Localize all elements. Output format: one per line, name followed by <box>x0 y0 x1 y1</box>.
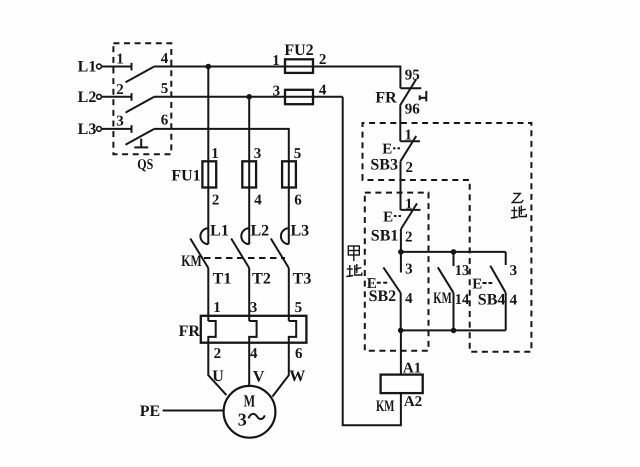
terminal L3 <box>97 126 102 131</box>
svg-text:T2: T2 <box>252 271 271 288</box>
svg-text:6: 6 <box>161 112 169 128</box>
svg-text:95: 95 <box>405 68 420 84</box>
wire KM to FR pole3 <box>288 268 290 321</box>
svg-text:2: 2 <box>405 160 413 176</box>
svg-text:L3: L3 <box>78 121 97 138</box>
svg-text:2: 2 <box>405 230 413 246</box>
node phase A junction <box>206 64 212 70</box>
svg-text:FR: FR <box>375 90 397 107</box>
wire L1 input <box>101 66 131 68</box>
wire L2 input <box>101 96 131 98</box>
svg-text:L2: L2 <box>250 223 269 240</box>
wire W to motor <box>272 343 288 397</box>
terminal L1 <box>97 64 102 69</box>
wire FR to SB3 <box>399 106 401 142</box>
heater element FRa <box>208 321 215 343</box>
pushbutton SB2 NO <box>377 252 401 331</box>
motor M <box>224 386 276 438</box>
svg-text:E: E <box>383 210 393 226</box>
svg-text:L1: L1 <box>78 59 97 76</box>
pushbutton SB4 NO <box>483 252 506 331</box>
box site B dashed <box>363 123 532 352</box>
contact FR NC (95-96) <box>400 80 426 106</box>
node phase B junction <box>246 94 252 100</box>
fuse FU1a <box>202 161 216 187</box>
wire L3 input <box>101 128 131 130</box>
svg-text:KM: KM <box>181 253 202 270</box>
svg-text:FU1: FU1 <box>171 168 200 185</box>
svg-text:6: 6 <box>294 193 302 209</box>
svg-text:3: 3 <box>250 300 258 316</box>
svg-text:6: 6 <box>295 346 303 362</box>
pushbutton SB1 NC <box>394 203 421 229</box>
contactor KM main pole 2 <box>231 228 249 268</box>
svg-text:3: 3 <box>254 146 262 162</box>
fuse FU1b <box>242 161 256 187</box>
label site A (jia di) <box>346 246 362 277</box>
svg-text:2: 2 <box>214 346 222 362</box>
contactor KM main pole 3 <box>271 228 289 268</box>
svg-text:3: 3 <box>510 263 518 279</box>
label site B (yi di) <box>511 194 527 219</box>
svg-text:4: 4 <box>250 346 258 362</box>
node rail bottom KM <box>451 328 457 334</box>
fuse FU1c <box>282 161 296 187</box>
svg-text:5: 5 <box>295 300 303 316</box>
wire rail top <box>401 251 506 253</box>
svg-text:13: 13 <box>455 263 470 279</box>
svg-text:3: 3 <box>405 261 413 277</box>
node rail top KM <box>451 249 457 255</box>
wire PE <box>163 410 224 412</box>
svg-text:1: 1 <box>213 300 221 316</box>
svg-text:1: 1 <box>116 52 124 68</box>
heater element FRc <box>289 321 296 343</box>
svg-text:96: 96 <box>405 102 421 118</box>
svg-text:14: 14 <box>455 292 470 308</box>
wire phase C bus <box>154 129 289 244</box>
wire phase B drop <box>248 97 250 244</box>
heater element FRb <box>249 321 256 343</box>
svg-text:FU2: FU2 <box>284 42 313 59</box>
svg-text:3: 3 <box>273 83 281 99</box>
wire U to motor <box>208 343 226 395</box>
svg-text:5: 5 <box>294 146 302 162</box>
svg-text:SB2: SB2 <box>369 288 397 305</box>
svg-text:4: 4 <box>319 83 327 99</box>
fuse FU2a <box>285 59 313 73</box>
svg-text:U: U <box>212 368 224 385</box>
svg-text:E: E <box>472 277 482 293</box>
wire rail bottom <box>401 329 506 331</box>
contactor KM main pole 1 <box>190 228 208 268</box>
svg-text:1: 1 <box>405 197 413 213</box>
svg-text:2: 2 <box>116 82 124 98</box>
svg-text:4: 4 <box>161 51 169 67</box>
fuse FU2b <box>285 90 313 104</box>
wire KM to FR pole2 <box>248 268 250 321</box>
terminal L2 <box>97 94 102 99</box>
svg-text:2: 2 <box>212 193 220 209</box>
svg-text:1: 1 <box>272 53 280 69</box>
svg-text:SB1: SB1 <box>371 228 399 245</box>
svg-text:A1: A1 <box>403 360 421 376</box>
pushbutton SB3 NC <box>393 136 420 161</box>
wire phase A bus <box>154 67 400 89</box>
svg-text:W: W <box>289 368 305 385</box>
svg-text:V: V <box>253 369 265 386</box>
svg-text:L2: L2 <box>78 89 97 106</box>
disconnect switch QS <box>113 43 171 154</box>
svg-text:3: 3 <box>116 113 124 129</box>
svg-text:A2: A2 <box>404 394 422 410</box>
wire node to coil <box>400 330 402 374</box>
svg-text:PE: PE <box>140 403 160 420</box>
svg-text:1: 1 <box>211 146 219 162</box>
svg-text:M: M <box>244 392 256 411</box>
svg-text:1: 1 <box>404 127 412 143</box>
svg-text:2: 2 <box>319 52 327 68</box>
wire phase B bus <box>154 96 343 98</box>
svg-text:4: 4 <box>254 193 262 209</box>
svg-text:4: 4 <box>510 293 518 309</box>
wire V to motor <box>248 343 250 386</box>
wire phase A drop <box>207 67 209 245</box>
node rail bottom <box>398 328 404 334</box>
wire control return <box>343 97 401 425</box>
svg-text:4: 4 <box>405 291 413 307</box>
contact KM aux NO <box>438 252 454 331</box>
node rail top <box>398 249 404 255</box>
wire SB1 to node <box>400 229 402 252</box>
svg-text:KM: KM <box>433 290 452 307</box>
svg-text:SB4: SB4 <box>478 292 506 309</box>
KM linkage <box>204 257 285 259</box>
svg-text:KM: KM <box>376 398 395 415</box>
thermal relay FR heater box <box>201 316 307 343</box>
box site A dashed <box>365 193 429 351</box>
svg-text:T3: T3 <box>293 271 312 288</box>
svg-text:5: 5 <box>161 81 169 97</box>
wire KM to FR pole1 <box>207 268 209 321</box>
svg-text:E: E <box>382 142 392 158</box>
wire SB3 to SB1 <box>400 161 402 210</box>
coil KM <box>381 375 423 394</box>
svg-text:L3: L3 <box>290 223 309 240</box>
svg-text:T1: T1 <box>213 271 232 288</box>
svg-text:QS: QS <box>137 157 153 173</box>
svg-text:SB3: SB3 <box>370 157 398 174</box>
svg-text:L1: L1 <box>210 223 229 240</box>
svg-text:FR: FR <box>179 323 201 340</box>
svg-text:3: 3 <box>238 410 247 430</box>
